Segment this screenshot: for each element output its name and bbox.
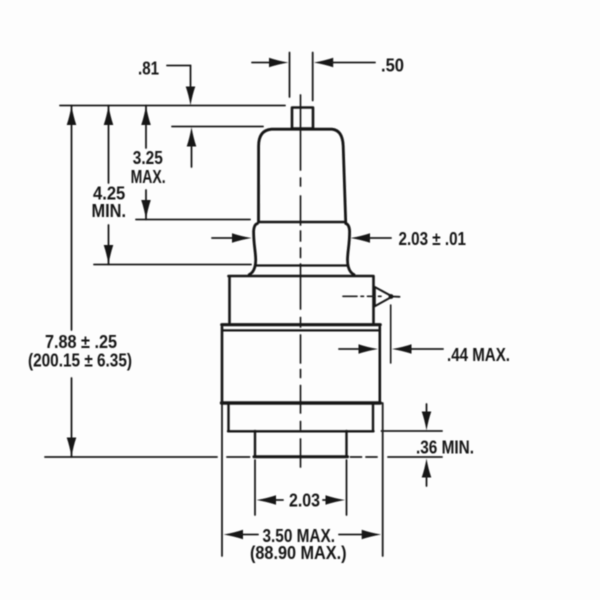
svg-text:.36 MIN.: .36 MIN. <box>416 438 474 458</box>
svg-text:MIN.: MIN. <box>92 201 127 221</box>
dim .81 leader horizontal <box>167 65 191 67</box>
main cylinder <box>229 276 374 323</box>
dome bottom joint line <box>259 221 346 223</box>
dim 2.03 dia right arrow tail <box>368 237 391 239</box>
flange top seam line <box>222 329 380 331</box>
dim .50 right arrow <box>314 58 334 68</box>
flange top edge <box>222 323 380 326</box>
ceramic dome body <box>259 129 346 222</box>
dim .50 left extension line <box>289 53 291 98</box>
svg-text:(200.15 ± 6.35): (200.15 ± 6.35) <box>28 351 132 371</box>
dim .44 tip extension line <box>390 305 392 363</box>
mid collar section (2.03 dia) <box>249 224 257 275</box>
spike center dash-dot line <box>343 295 381 297</box>
dim 3.25 vertical line upper <box>145 106 147 149</box>
svg-text:2.03: 2.03 <box>289 491 320 511</box>
dim 2.03 dia left arrow <box>232 233 252 243</box>
dim 7.88 top arrow <box>67 106 77 126</box>
dim .36 up arrow tail <box>426 476 428 486</box>
svg-text:2.03 ± .01: 2.03 ± .01 <box>399 229 467 249</box>
dim .44 left arrow <box>359 344 379 354</box>
dim .36 lower extension line <box>388 456 442 458</box>
tip-off spike <box>375 287 393 306</box>
lower ring bottom edge <box>228 430 374 432</box>
lower ring section <box>229 405 374 432</box>
datum line top (stub top level) <box>60 105 285 107</box>
dim .36 up arrow <box>422 459 432 478</box>
collar bottom joint line <box>256 264 348 266</box>
baseline dash left of pedestal <box>227 456 250 458</box>
dim .81 down arrow <box>186 87 196 106</box>
dim 3.25 vertical line lower <box>145 190 147 220</box>
dim 2.03 bottom left extension line <box>254 460 256 515</box>
flange bottom edge <box>222 401 381 404</box>
dim .50 right arrow tail <box>331 62 375 64</box>
center line vertical axis <box>300 95 302 467</box>
dim 4.25 vertical line upper <box>108 106 110 184</box>
svg-text:.81: .81 <box>138 59 159 79</box>
dim 2.03 dia left arrow tail <box>212 237 234 239</box>
dim 4.25 bottom arrow <box>104 245 114 265</box>
dim 2.03 bottom right extension line <box>346 460 348 515</box>
dim 3.50 right extension line <box>382 403 384 556</box>
dim 7.88 vertical line upper <box>71 106 73 331</box>
dim .36 upper extension line <box>382 430 443 432</box>
flange body <box>222 327 380 402</box>
dim .81 lower up arrow <box>187 127 197 147</box>
dim 2.03 bottom right arrow <box>326 495 346 505</box>
svg-text:.50: .50 <box>381 56 404 76</box>
dim 3.25 bottom arrow <box>141 200 151 220</box>
dim 3.50 right tail <box>339 534 363 536</box>
pedestal bottom edge <box>254 455 348 458</box>
dim .36 down arrow <box>422 412 432 431</box>
dim 2.03 bottom left tail <box>274 499 283 501</box>
dim 4.25 vertical line lower <box>108 225 110 265</box>
dim .50 right extension line <box>312 53 314 101</box>
svg-text:MAX.: MAX. <box>131 167 166 187</box>
svg-text:7.88 ± .25: 7.88 ± .25 <box>45 332 117 352</box>
top terminal stub <box>292 108 313 129</box>
svg-text:3.25: 3.25 <box>133 148 163 168</box>
dim 3.50 right arrow <box>362 530 382 540</box>
dim .81 leader vertical <box>190 66 192 89</box>
datum line collar top level <box>136 219 250 221</box>
dim 7.88 bottom arrow <box>67 438 77 458</box>
dim .44 right arrow tail <box>410 348 444 350</box>
dim .81 lower arrow tail <box>191 146 193 167</box>
spike tip dot <box>389 294 394 299</box>
baseline dash right of pedestal <box>351 456 362 458</box>
dim .44 left arrow tail inside flange <box>339 348 359 350</box>
dim .50 left arrow <box>269 58 289 68</box>
datum line collar bottom level <box>94 264 251 266</box>
dim 2.03 bottom right tail <box>323 499 330 501</box>
svg-text:(88.90 MAX.): (88.90 MAX.) <box>250 543 347 563</box>
bottom pedestal <box>255 431 347 457</box>
dim 7.88 vertical line lower <box>71 378 73 457</box>
dim 2.03 bottom left arrow <box>257 495 277 505</box>
dim 3.50 left extension line <box>221 402 223 556</box>
dim .36 down arrow tail <box>426 404 428 413</box>
dim .50 left arrow tail <box>252 62 271 64</box>
dim 3.50 left tail <box>241 534 258 536</box>
dim 2.03 dia right arrow <box>351 233 371 243</box>
svg-text:.44 MAX.: .44 MAX. <box>447 345 510 365</box>
dim 3.50 left arrow <box>224 530 244 540</box>
dim 4.25 top arrow <box>104 106 114 126</box>
dim 3.25 top arrow <box>141 106 151 126</box>
spike tail line <box>393 296 400 298</box>
datum baseline bottom <box>45 456 217 458</box>
datum line dome top level <box>172 126 263 128</box>
dim .44 right arrow <box>392 344 412 354</box>
baseline dash 2 right of pedestal <box>366 456 377 458</box>
